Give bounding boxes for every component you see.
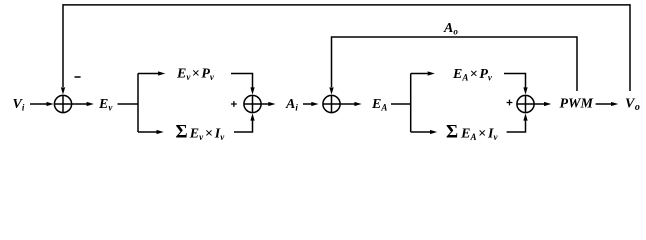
arrowhead: S1 output to Ev	[87, 102, 94, 106]
arrowhead: Vi into S1	[47, 102, 54, 106]
plus sign at S4	[507, 100, 513, 106]
wire: branch B2 vertical	[410, 74, 412, 133]
wire: B2 to block EAPv	[411, 73, 429, 75]
arrowhead: outer feedback down into S1	[61, 87, 65, 94]
wire: Ev to branch node B1	[118, 103, 139, 105]
arrowhead: S4 output to PWM	[544, 102, 551, 106]
arrowhead: EvPv down into S2	[250, 87, 254, 94]
wire: B1 to block EvPv	[138, 73, 159, 75]
wire: Vi input to summing junction S1	[30, 103, 48, 105]
arrowhead: S3 output to EA	[354, 102, 361, 106]
svg-text:PWM: PWM	[560, 97, 594, 112]
summing junction S3	[323, 95, 340, 112]
wire: B2 to block sum EAIv	[411, 131, 431, 133]
arrowhead: PWM to Vo	[611, 102, 618, 106]
svg-text:EA×Pv: EA×Pv	[452, 67, 493, 83]
arrowhead: EAPv down into S4	[523, 87, 527, 94]
arrowhead: Ai into S3	[311, 102, 318, 106]
wire: sum EvIv output up into S2	[234, 120, 253, 132]
plus sign at S2	[231, 101, 237, 107]
summing junction S4	[517, 95, 534, 112]
wire: S1 output to Ev	[72, 103, 88, 105]
wire: EAPv output down into S4	[504, 74, 526, 89]
arrowhead: into EAPv block	[428, 71, 435, 75]
wire: B1 to block sum EvIv	[138, 131, 158, 133]
arrowhead: into EvPv block	[158, 71, 165, 75]
wire: Ai to summing junction S3	[303, 103, 313, 105]
arrowhead: sum EAIv up into S4	[523, 113, 527, 120]
arrowhead: S2 output to Ai	[268, 102, 275, 106]
wire: branch B1 vertical	[137, 74, 139, 133]
wire: S3 output to EA	[340, 103, 356, 105]
arrowhead: into sum EvIv block	[157, 130, 164, 134]
wire: S4 output to PWM	[534, 103, 545, 105]
arrowhead: Ao feedback down into S3	[329, 87, 333, 94]
wire: S2 output to Ai	[261, 103, 270, 105]
wire: PWM to Vo	[596, 103, 612, 105]
summing junction S2	[244, 95, 261, 112]
wire: Ao feedback from PWM across into S3	[332, 37, 578, 91]
arrowhead: sum EvIv up into S2	[250, 113, 254, 120]
summing junction S1	[54, 95, 71, 112]
arrowhead: into sum EAIv block	[430, 130, 437, 134]
wire: EA to branch node B2	[391, 103, 411, 105]
minus sign at S1 feedback input	[75, 76, 81, 78]
wire: outer feedback from Vo across top into S1	[63, 5, 630, 91]
wire: EvPv output down into S2	[231, 74, 253, 89]
wire: sum EAIv output up into S4	[507, 120, 526, 132]
svg-text:Ev×Pv: Ev×Pv	[176, 67, 215, 83]
